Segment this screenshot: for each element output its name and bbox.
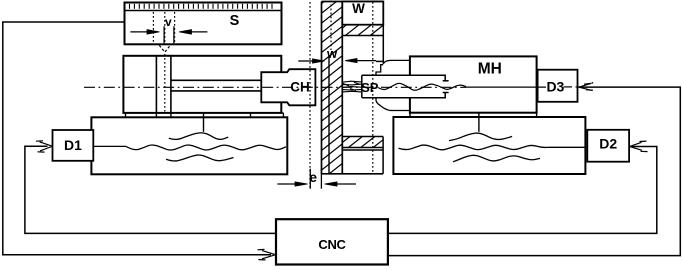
svg-text:D2: D2 [599,135,617,151]
svg-text:CH: CH [290,79,310,94]
svg-text:CNC: CNC [318,237,346,252]
svg-text:D3: D3 [546,79,564,95]
svg-text:e: e [309,169,317,185]
svg-text:v: v [165,15,172,29]
svg-text:SP: SP [361,80,379,95]
svg-text:MH: MH [478,60,502,77]
svg-text:S: S [230,13,240,29]
svg-text:D1: D1 [64,137,82,153]
svg-text:W: W [352,1,365,16]
svg-text:w: w [326,46,338,61]
